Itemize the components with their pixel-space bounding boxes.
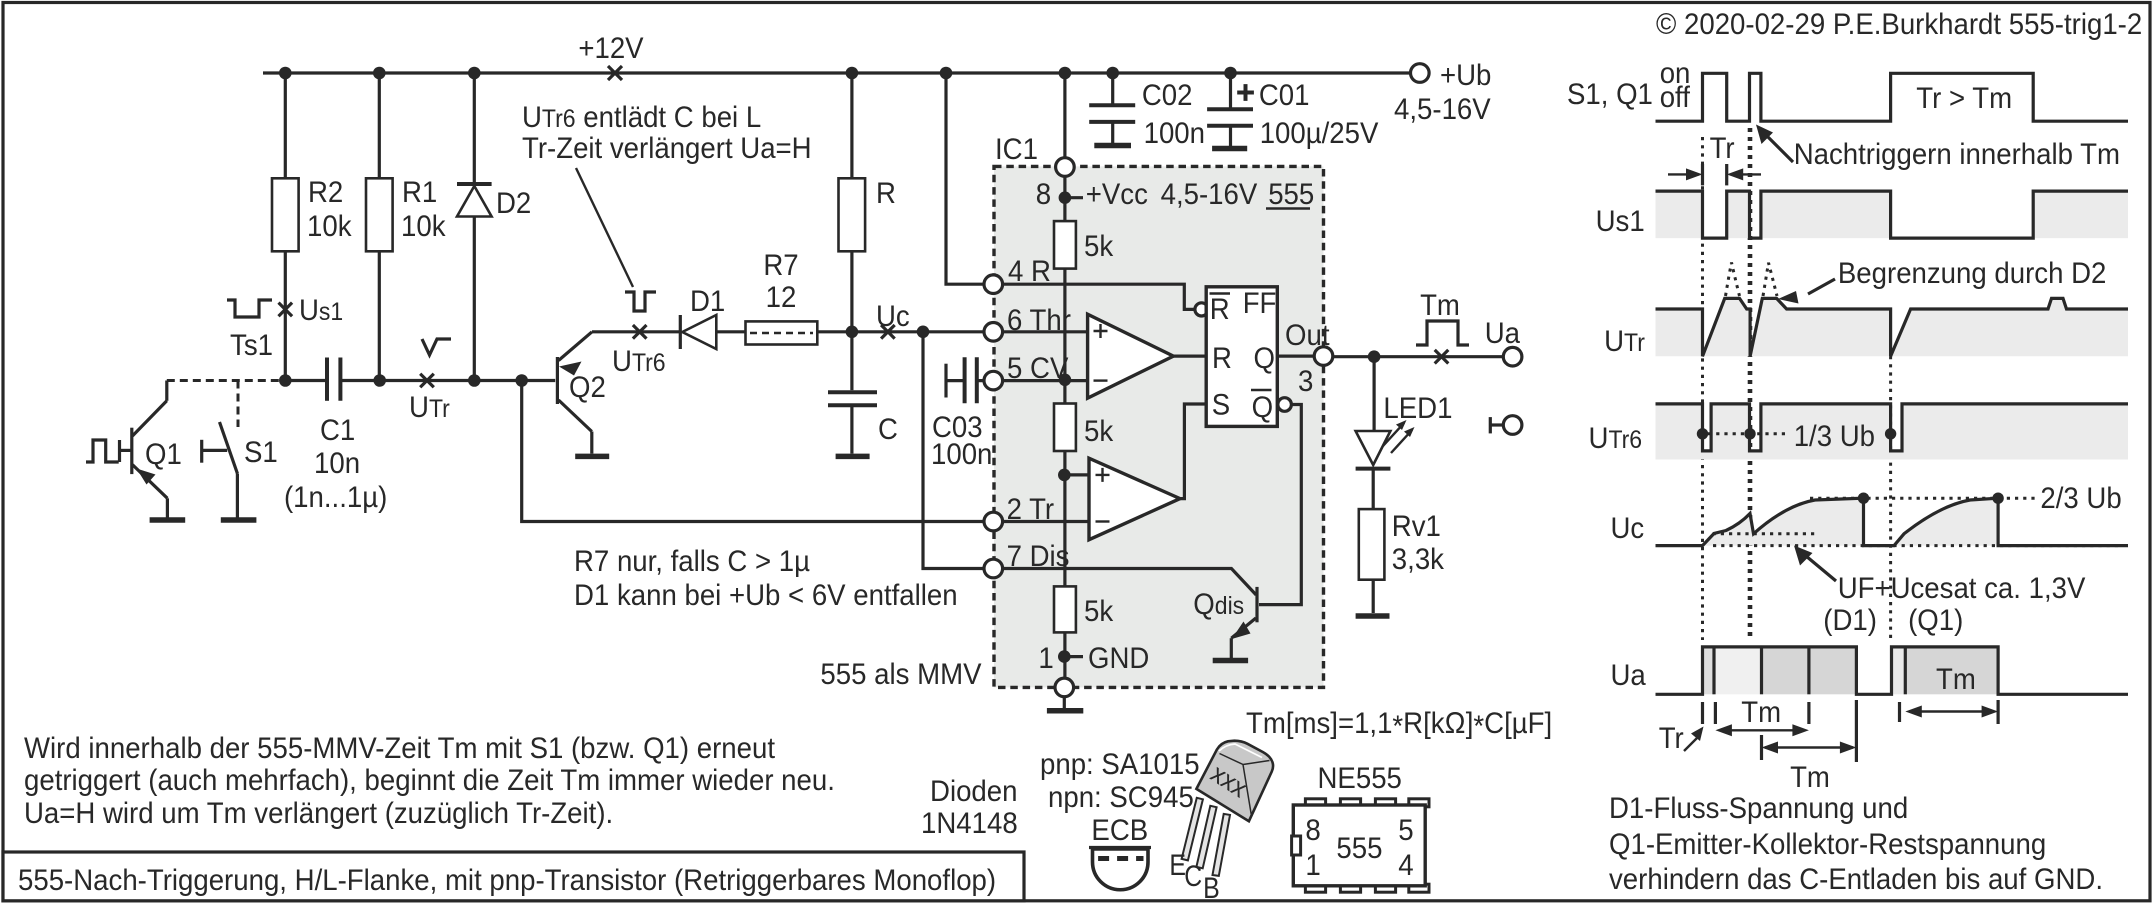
waveform row Uc gray fills [1703, 498, 1864, 545]
terminal Ua [1503, 347, 1522, 366]
svg-text:R7: R7 [763, 249, 798, 282]
resistor Rv1 [1359, 509, 1385, 580]
svg-text:2/3 Ub: 2/3 Ub [2040, 482, 2121, 515]
dotted level UF+Ucesat [1713, 532, 1817, 535]
waveform row Us1 gray fill [1656, 191, 2129, 238]
svg-text:1: 1 [1305, 849, 1320, 882]
node 2/3 Ub dots [1858, 493, 1869, 504]
ground C [836, 454, 870, 460]
pin 2 Tr [993, 520, 1089, 523]
node Us1 x-marker [279, 303, 293, 317]
svg-text:UTr6: UTr6 [612, 345, 666, 378]
svg-text:555: 555 [1336, 832, 1382, 865]
ground Qdis [1213, 658, 1248, 664]
dotted overshoot spike 2 [1763, 263, 1777, 296]
svg-text:Uc: Uc [1611, 512, 1645, 545]
svg-text:npn: SC945: npn: SC945 [1048, 781, 1194, 814]
svg-text:Tm: Tm [1420, 289, 1460, 322]
svg-text:Nachtriggern innerhalb Tm: Nachtriggern innerhalb Tm [1794, 138, 2120, 171]
capacitor C01 electrolytic [1229, 73, 1232, 109]
diode D1 [679, 315, 682, 349]
transistor Q2 pnp [556, 357, 559, 404]
svg-text:12: 12 [766, 281, 797, 314]
dotted guide line trigger 2 [1748, 128, 1753, 640]
waveform row Us1 line [1656, 191, 2129, 238]
svg-text:Ua=H wird um Tm verlängert (zu: Ua=H wird um Tm verlängert (zuzüglich Tr… [24, 797, 613, 830]
LED LED1 [1372, 357, 1375, 431]
dotted level Uc baseline [1713, 544, 2118, 547]
op-amp comparator lower [1064, 473, 1089, 476]
wire trigger node horizontal [285, 379, 327, 382]
resistor R1 [378, 73, 381, 178]
svg-text:S: S [1212, 389, 1230, 422]
dotted level 2/3 Ub [1810, 497, 2035, 500]
svg-text:D2: D2 [496, 187, 531, 220]
svg-text:S1: S1 [244, 436, 278, 469]
waveform row Ua line [1656, 647, 2129, 694]
svg-text:LED1: LED1 [1383, 392, 1452, 425]
svg-text:Us1: Us1 [1596, 205, 1645, 238]
wire to GND pin [1063, 632, 1066, 687]
svg-text:off: off [1660, 81, 1691, 114]
svg-text:pnp: SA1015: pnp: SA1015 [1040, 748, 1200, 781]
node Ua x-marker [1435, 350, 1449, 364]
wire Thr node horizontal [592, 330, 680, 333]
svg-text:D1-Fluss-Spannung und: D1-Fluss-Spannung und [1609, 792, 1908, 825]
flip-flop FF box [1206, 287, 1277, 427]
svg-text:5k: 5k [1084, 230, 1114, 263]
wire Q output to pin 3 [1277, 355, 1324, 358]
resistor R2 [284, 73, 287, 178]
svg-text:+12V: +12V [578, 32, 643, 65]
wire +12V supply rail [263, 71, 1410, 74]
svg-text:Q2: Q2 [569, 371, 606, 404]
svg-text:UTr: UTr [1604, 325, 1645, 358]
svg-text:100n: 100n [1144, 117, 1205, 150]
svg-text:+Ub: +Ub [1440, 59, 1491, 92]
dotted guide line trigger 3 [1889, 356, 1892, 640]
bubble Q-bar output [1278, 398, 1292, 412]
ground S1 [221, 517, 257, 523]
ground C01 [1212, 146, 1247, 152]
svg-text:R1: R1 [402, 176, 437, 209]
resistor 5k upper [1054, 221, 1076, 269]
inverter bubble R input [1195, 303, 1208, 316]
svg-text:Ts1: Ts1 [230, 329, 273, 362]
dimension Tm pulse 2 [1898, 702, 1901, 722]
node 1/3 Ub dots and dotted level [1697, 428, 1708, 439]
wire comparator upper to FF R input [1173, 355, 1206, 358]
waveform row UTr gray fill [1656, 298, 2129, 356]
svg-text:R: R [1212, 342, 1232, 375]
waveform glyph Us1 negative pulse [227, 300, 272, 317]
svg-text:Wird innerhalb der 555-MMV-Zei: Wird innerhalb der 555-MMV-Zeit Tm mit S… [24, 732, 776, 765]
capacitor C timing [850, 332, 853, 390]
svg-text:555 als MMV: 555 als MMV [820, 658, 981, 691]
svg-text:R2: R2 [308, 176, 343, 209]
svg-text:10n: 10n [314, 447, 360, 480]
pin 5 CV wire [993, 379, 1087, 382]
svg-text:Begrenzung durch D2: Begrenzung durch D2 [1838, 257, 2106, 290]
svg-text:C: C [878, 413, 898, 446]
capacitor C1 [325, 358, 329, 401]
svg-text:R: R [876, 177, 896, 210]
svg-text:1N4148: 1N4148 [921, 807, 1018, 840]
svg-text:IC1: IC1 [995, 133, 1038, 166]
pin 4 R wire [993, 284, 1195, 309]
pin 1 GND [1058, 650, 1071, 663]
node UTr6 x-marker [633, 325, 647, 339]
transistor Q1 pnp [86, 440, 119, 462]
svg-text:Q1-Emitter-Kollektor-Restspann: Q1-Emitter-Kollektor-Restspannung [1609, 828, 2046, 861]
wire trigger node down to pin 2 [522, 381, 994, 522]
capacitor C02 [1111, 73, 1114, 105]
svg-text:D1 kann bei +Ub < 6V entfallen: D1 kann bei +Ub < 6V entfallen [574, 579, 958, 612]
waveform row Ua dividers [1712, 647, 1715, 694]
transistor Qdis npn [1255, 587, 1258, 622]
svg-text:FF: FF [1243, 287, 1277, 320]
svg-text:Q1: Q1 [145, 438, 182, 471]
ground IC1 [1063, 696, 1066, 708]
svg-text:UTr6: UTr6 [1589, 422, 1643, 455]
ground Q1 [150, 517, 186, 523]
svg-text:UF+Ucesat ca. 1,3V: UF+Ucesat ca. 1,3V [1838, 572, 2086, 605]
terminal output ground [1489, 417, 1492, 433]
pin 6 Thr wire [993, 330, 1087, 333]
svg-text:GND: GND [1088, 642, 1149, 675]
wire Thr-Dis vertical link [923, 332, 993, 569]
svg-text:555-Nach-Triggerung, H/L-Flank: 555-Nach-Triggerung, H/L-Flanke, mit pnp… [18, 864, 996, 897]
svg-text:6 Thr: 6 Thr [1007, 304, 1071, 337]
svg-text:100n: 100n [931, 438, 992, 471]
dotted overshoot spike 1 [1726, 263, 1740, 297]
resistor 5k lower [1054, 586, 1076, 632]
svg-text:Qdis: Qdis [1193, 588, 1244, 621]
svg-text:Tm: Tm [1790, 761, 1830, 794]
svg-text:C1: C1 [320, 414, 355, 447]
wire divider chain [1063, 269, 1066, 404]
wire Vcc feed down [1063, 73, 1066, 221]
ground Rv1 [1356, 613, 1390, 619]
package TO-92 drawing [1182, 798, 1230, 876]
waveform row UTr6 gray fill [1656, 404, 2129, 460]
svg-text:10k: 10k [307, 210, 352, 243]
svg-text:verhindern das C-Entladen bis: verhindern das C-Entladen bis auf GND. [1609, 863, 2103, 896]
IC IC1 555 dashed box [994, 166, 1324, 687]
svg-text:555: 555 [1268, 178, 1314, 211]
diode D2 [473, 73, 476, 184]
wire output Ua [1332, 355, 1505, 358]
dotted guide line trigger 1 [1701, 137, 1704, 640]
node Thr junction dots [846, 326, 859, 339]
op-amp comparator upper [1088, 314, 1174, 398]
svg-text:B: B [1203, 872, 1220, 904]
svg-text:R: R [1210, 293, 1230, 326]
svg-text:Tm: Tm [1936, 663, 1976, 696]
capacitor C03 [944, 364, 947, 398]
svg-text:Tr-Zeit verlängert Ua=H: Tr-Zeit verlängert Ua=H [522, 132, 812, 165]
svg-text:3: 3 [1298, 365, 1313, 398]
svg-text:5k: 5k [1084, 595, 1114, 628]
svg-text:Q: Q [1254, 342, 1276, 375]
svg-text:D1: D1 [690, 285, 725, 318]
svg-text:Uc: Uc [876, 300, 910, 333]
resistor 5k middle [1054, 404, 1076, 452]
waveform row Ua segment fills [1703, 647, 1715, 694]
node UTr x-marker [420, 374, 434, 388]
svg-text:Us1: Us1 [299, 294, 343, 327]
svg-text:(Q1): (Q1) [1908, 604, 1963, 637]
svg-text:ECB: ECB [1091, 814, 1148, 847]
svg-text:Tm: Tm [1741, 696, 1781, 729]
svg-text:4 R: 4 R [1008, 255, 1051, 288]
svg-text:UTr: UTr [409, 391, 450, 424]
svg-text:UTr6 entlädt C bei L: UTr6 entlädt C bei L [522, 101, 761, 134]
svg-text:S1, Q1: S1, Q1 [1567, 78, 1653, 111]
resistor R7 optional [746, 321, 818, 344]
svg-text:getriggert (auch mehrfach), be: getriggert (auch mehrfach), beginnt die … [24, 764, 835, 797]
svg-text:Tm[ms]=1,1*R[kΩ]*C[µF]: Tm[ms]=1,1*R[kΩ]*C[µF] [1246, 707, 1552, 743]
node Uc x-marker [881, 325, 895, 339]
svg-text:7 Dis: 7 Dis [1007, 540, 1070, 573]
svg-text:4: 4 [1398, 849, 1413, 882]
terminal +Ub [1411, 64, 1430, 83]
svg-text:C01: C01 [1259, 79, 1310, 112]
ground C02 [1094, 143, 1131, 149]
svg-text:2 Tr: 2 Tr [1007, 493, 1055, 526]
svg-text:8: 8 [1305, 814, 1320, 847]
svg-text:NE555: NE555 [1318, 762, 1402, 795]
svg-text:Tr: Tr [1710, 132, 1735, 165]
node trigger junction dots [279, 374, 292, 387]
waveform glyph UTr falling edge [422, 339, 451, 355]
svg-text:5: 5 [1398, 814, 1413, 847]
svg-text:3,3k: 3,3k [1392, 543, 1445, 576]
svg-text:+Vcc: +Vcc [1086, 178, 1148, 211]
waveform row UTr line [1656, 298, 2129, 356]
dimension Tm second [1760, 735, 1763, 760]
svg-text:1/3 Ub: 1/3 Ub [1794, 420, 1875, 453]
pin 7 Dis wire [993, 569, 1256, 595]
annotation pointer line to UTr6 glyph [576, 168, 633, 287]
wire Q-bar to Qdis base [1259, 405, 1301, 605]
svg-text:5k: 5k [1084, 415, 1114, 448]
svg-text:1: 1 [1038, 642, 1053, 675]
wire divider chain 2 [1063, 451, 1066, 586]
pin 3 output [1314, 347, 1333, 366]
svg-text:Ua: Ua [1485, 317, 1521, 350]
svg-text:Tr > Tm: Tr > Tm [1916, 82, 2012, 115]
waveform row UTr6 line [1656, 404, 2129, 451]
waveform glyph UTr6 negative pulse [625, 292, 656, 311]
svg-text:4,5-16V: 4,5-16V [1394, 93, 1491, 126]
svg-text:Tr: Tr [1659, 722, 1684, 755]
svg-text:© 2020-02-29 P.E.Burkhardt 555: © 2020-02-29 P.E.Burkhardt 555-trig1-2 [1656, 8, 2142, 41]
svg-text:C: C [1184, 860, 1202, 893]
svg-text:C02: C02 [1142, 79, 1193, 112]
wire comparator lower to FF S input [1180, 404, 1206, 499]
wire rail to pin 4 [946, 73, 985, 284]
svg-text:(1n...1µ): (1n...1µ) [284, 481, 387, 514]
svg-text:5 CV: 5 CV [1007, 352, 1068, 385]
svg-text:R7 nur, falls C > 1µ: R7 nur, falls C > 1µ [574, 545, 810, 578]
ground Q2 [575, 454, 609, 460]
node rail junction dots [279, 67, 292, 80]
svg-text:Ua: Ua [1611, 659, 1647, 692]
svg-text:4,5-16V: 4,5-16V [1161, 178, 1258, 211]
switch S1 [200, 440, 203, 463]
title box [3, 852, 1024, 901]
svg-text:Q: Q [1252, 391, 1274, 424]
svg-text:Dioden: Dioden [930, 775, 1018, 808]
resistor R timing [850, 73, 853, 178]
pin 8 +Vcc [1056, 158, 1075, 177]
svg-text:100µ/25V: 100µ/25V [1260, 117, 1379, 150]
waveform row Uc line [1656, 498, 2129, 545]
svg-text:10k: 10k [401, 210, 446, 243]
dimension Tm first [1701, 702, 1704, 724]
svg-text:Rv1: Rv1 [1392, 510, 1441, 543]
wire dashed Ts1 link [167, 379, 285, 382]
svg-text:(D1): (D1) [1823, 604, 1877, 637]
svg-text:8: 8 [1036, 178, 1051, 211]
